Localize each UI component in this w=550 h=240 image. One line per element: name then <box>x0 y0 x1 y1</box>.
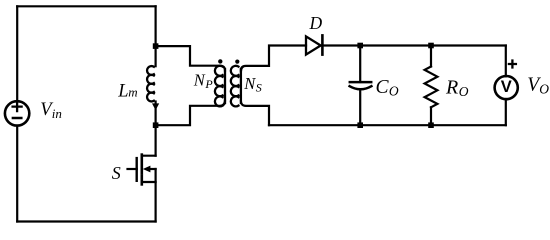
node junction primary-bottom <box>153 122 159 128</box>
node junction cap-top <box>357 43 363 49</box>
wire main vertical upper <box>155 6 157 66</box>
node junction cap-bottom <box>357 122 363 128</box>
wire left rail upper <box>16 6 18 100</box>
label Vin <box>40 100 62 121</box>
wire body lead with arrow <box>149 168 156 170</box>
wire VO bottom lead <box>505 99 507 125</box>
svg-text:L: L <box>117 81 128 101</box>
label Lm <box>117 81 137 101</box>
mosfet channel dashes <box>141 155 144 185</box>
arrow Lm current <box>152 103 159 110</box>
wire resistor bottom lead <box>430 107 432 125</box>
mosfet S <box>128 155 156 222</box>
wire bottom-left rail <box>17 220 155 222</box>
svg-text:O: O <box>459 84 469 99</box>
wire secondary bottom link <box>241 101 269 125</box>
svg-text:O: O <box>389 83 399 98</box>
label VO <box>527 75 549 97</box>
node junction primary-top <box>153 43 159 49</box>
svg-text:N: N <box>193 70 206 89</box>
wire source horizontal <box>142 181 156 183</box>
node junction resistor-bottom <box>428 122 434 128</box>
label NP <box>193 70 214 90</box>
svg-text:m: m <box>128 85 137 100</box>
transformer secondary NS <box>231 66 241 107</box>
wire primary top link <box>156 46 225 71</box>
wire bottom-right rail <box>269 124 506 126</box>
wire VO top lead <box>505 46 507 77</box>
wire drain horizontal <box>142 155 156 157</box>
diode D <box>306 35 322 54</box>
node junction resistor-top <box>428 43 434 49</box>
source Vin <box>5 101 29 125</box>
svg-text:in: in <box>52 106 62 121</box>
wire gate lead <box>128 168 137 170</box>
svg-text:N: N <box>243 74 256 93</box>
label RO <box>445 77 469 99</box>
resistor RO <box>425 67 438 108</box>
svg-text:P: P <box>204 77 213 91</box>
wire capacitor top lead <box>359 46 361 83</box>
node dot NP polarity <box>218 59 222 63</box>
capacitor CO <box>350 82 372 89</box>
svg-text:V: V <box>501 78 512 96</box>
label CO <box>376 77 399 99</box>
wire primary bottom link <box>156 101 225 125</box>
wire top-right rail <box>322 44 505 46</box>
svg-text:S: S <box>112 163 121 183</box>
wire resistor top lead <box>430 46 432 67</box>
svg-text:C: C <box>376 77 390 98</box>
wire main vertical mid <box>155 102 157 156</box>
label NS <box>243 74 262 94</box>
mosfet gate plate <box>135 158 137 181</box>
source VO meter <box>495 61 518 100</box>
wire source vertical <box>155 169 157 222</box>
wire secondary top link <box>241 46 306 71</box>
wire capacitor bottom lead <box>359 90 361 125</box>
svg-text:S: S <box>256 80 262 94</box>
wire left rail lower <box>16 126 18 221</box>
inductor Lm <box>147 66 154 101</box>
node dot NS polarity <box>235 60 239 64</box>
svg-text:D: D <box>309 13 323 33</box>
transformer primary NP <box>215 66 225 107</box>
wire top-left rail <box>17 5 155 7</box>
svg-text:O: O <box>539 82 549 97</box>
svg-text:R: R <box>445 77 458 99</box>
